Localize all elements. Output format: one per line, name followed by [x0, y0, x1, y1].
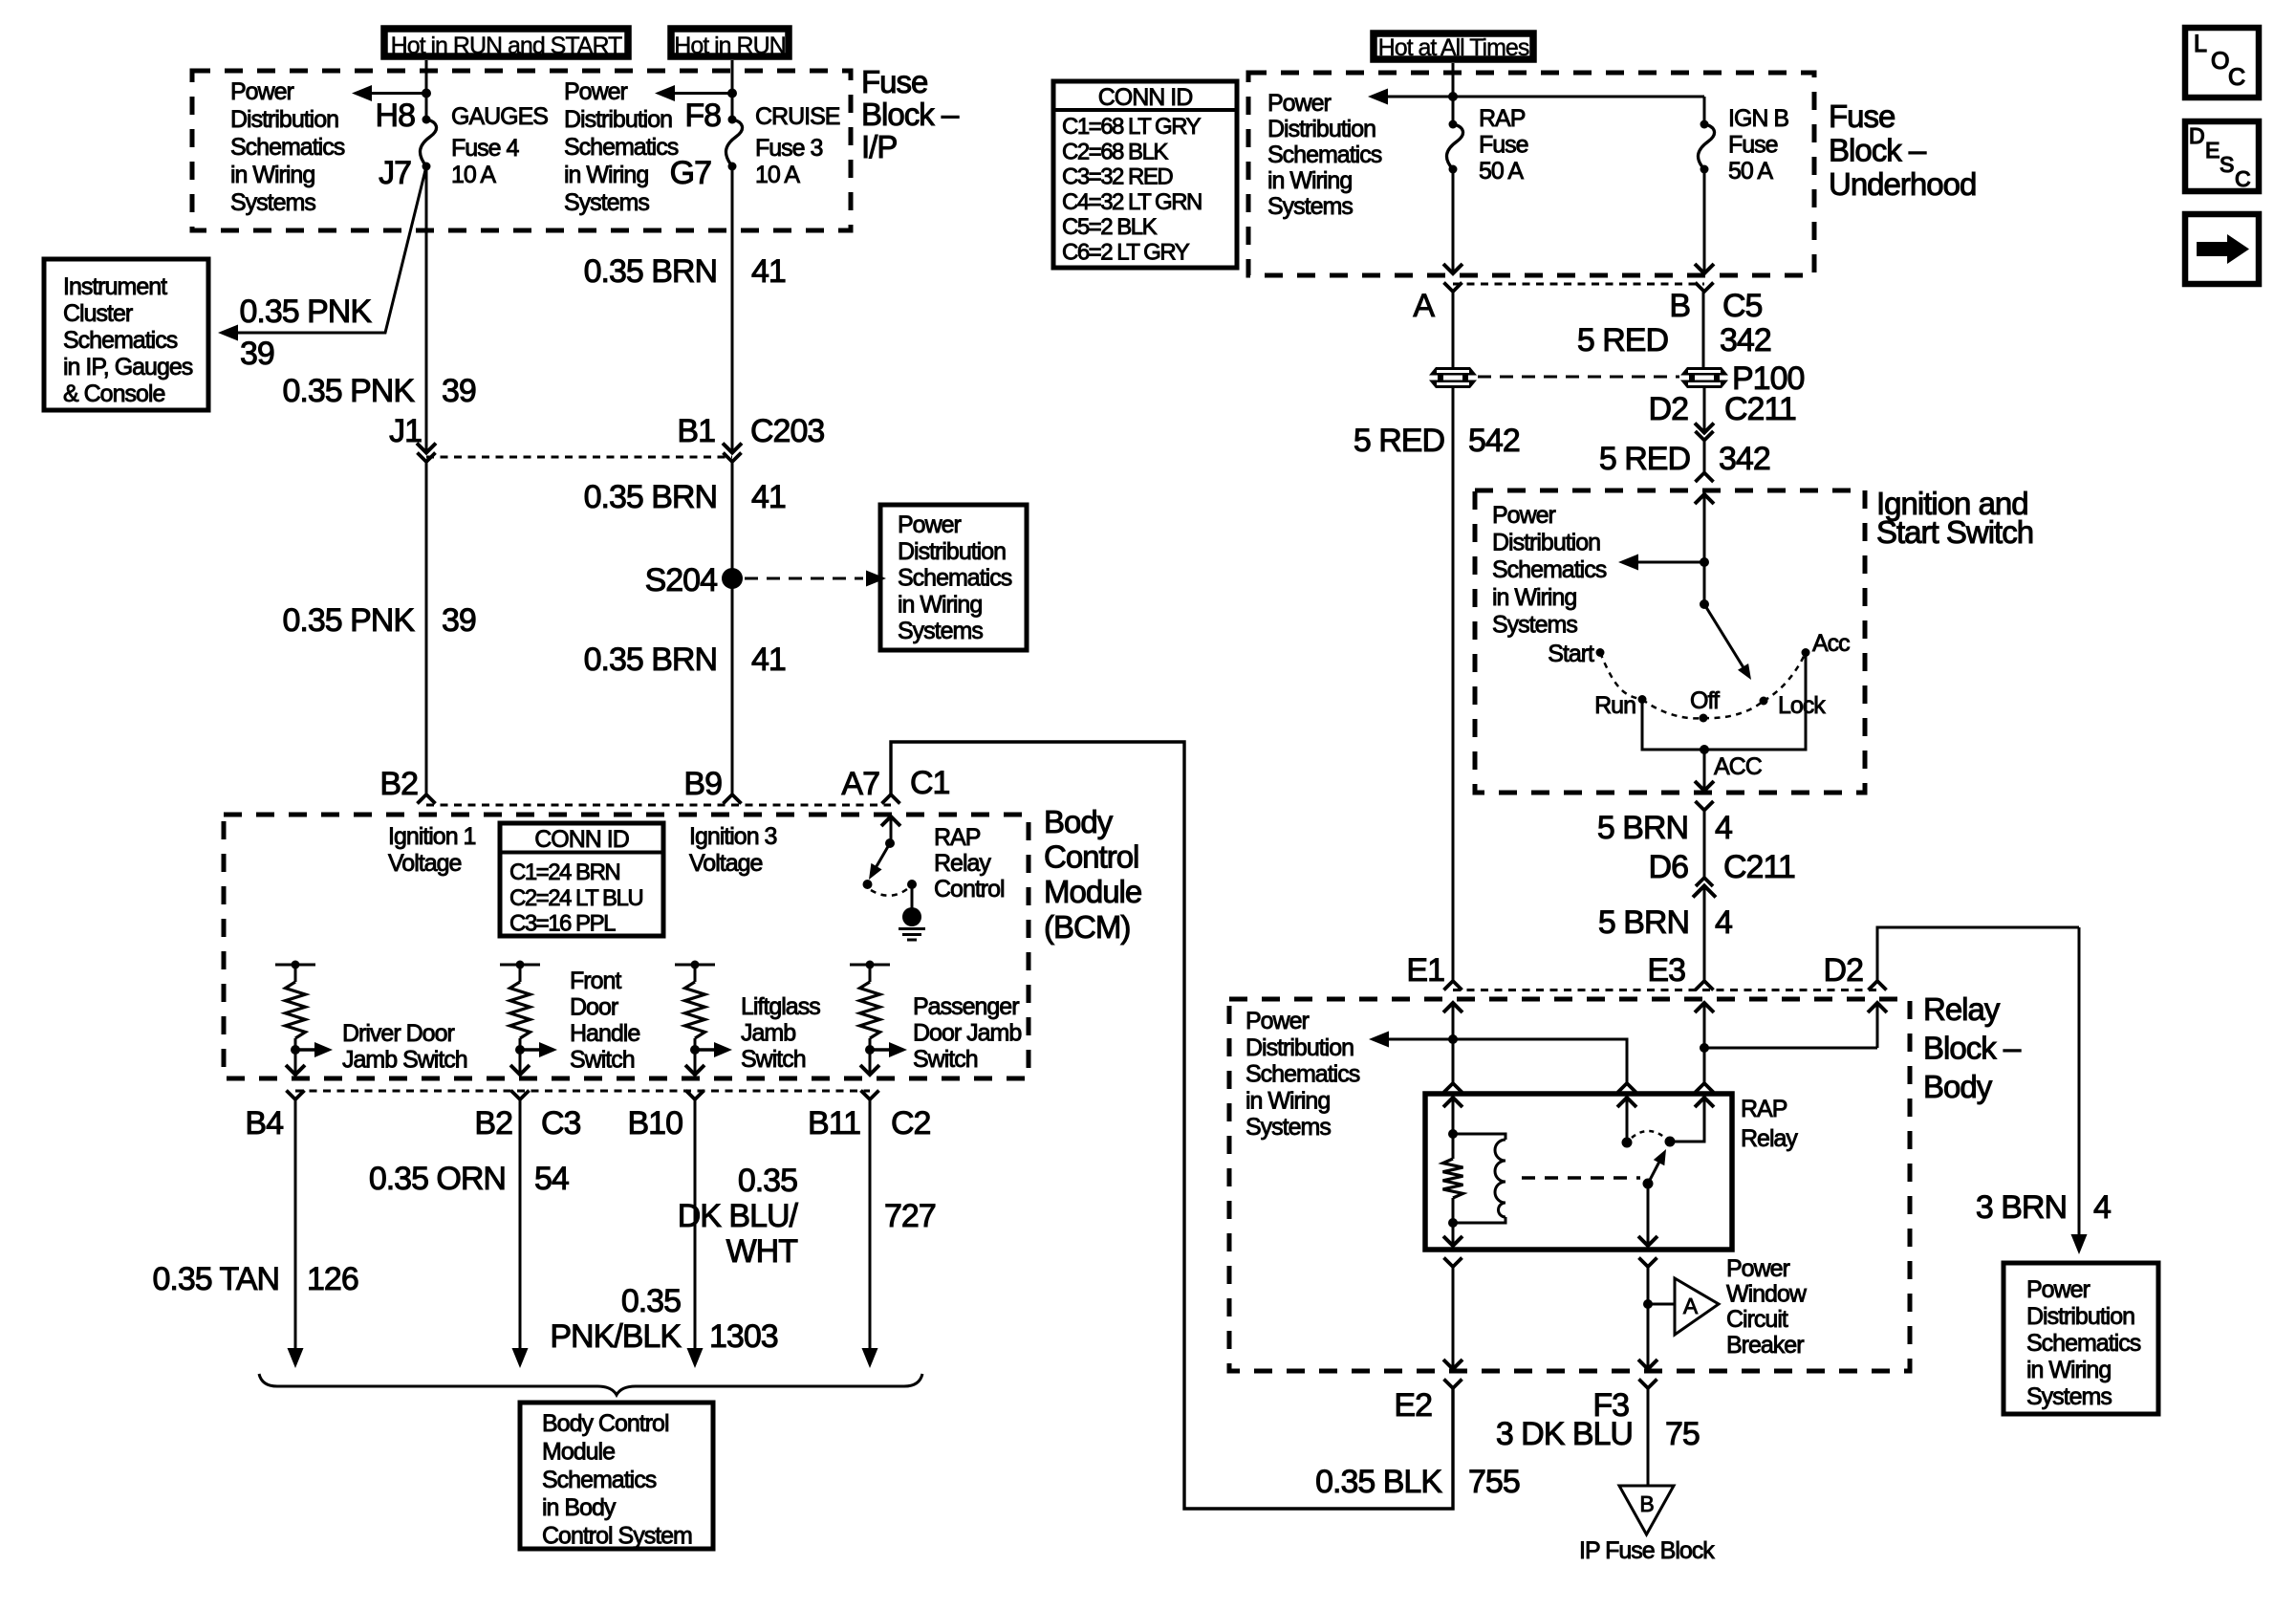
off-page triangle B to IP Fuse Block — [1619, 1486, 1674, 1534]
svg-text:0.35 PNK: 0.35 PNK — [282, 602, 415, 639]
svg-text:Control: Control — [934, 876, 1005, 903]
wire: ACC output down through boundary — [1703, 750, 1706, 791]
svg-text:in Wiring: in Wiring — [1267, 167, 1352, 194]
svg-text:C: C — [2235, 166, 2250, 191]
svg-text:41: 41 — [751, 479, 786, 515]
wire: F3 output inside relay block — [1647, 1267, 1650, 1369]
BCM bottom connector forks and dashed mating line — [287, 1091, 305, 1100]
svg-text:in Wiring: in Wiring — [230, 162, 314, 188]
RAP relay control left contact — [863, 880, 873, 889]
svg-text:Power: Power — [1245, 1008, 1310, 1034]
junction node on GAUGES feed — [422, 89, 431, 98]
svg-text:Door: Door — [570, 994, 618, 1021]
svg-text:0.35 BRN: 0.35 BRN — [584, 479, 717, 515]
svg-text:G7: G7 — [670, 155, 711, 191]
svg-text:RAP: RAP — [1741, 1096, 1787, 1122]
ignition switch feed arrow into boundary — [1695, 494, 1714, 504]
relay block entry arrows E1 E3 D2 — [1443, 1003, 1462, 1012]
svg-text:Relay: Relay — [1923, 991, 2001, 1027]
box: Body Control Module Schematics in Body Control System — [520, 1403, 713, 1549]
wire: arrow to Power Distribution (ignition) — [1624, 561, 1704, 564]
ignition rotary switch armature to Lock — [1704, 604, 1744, 669]
ground symbol — [902, 907, 921, 926]
box: Power Distribution Schematics in Wiring Systems (3 BRN ref) — [2004, 1263, 2158, 1414]
junction: liftglass jamb switch — [690, 1045, 700, 1055]
svg-text:Schematics: Schematics — [63, 327, 178, 354]
fuse: RAP Fuse 50 A — [1449, 120, 1458, 129]
svg-text:C211: C211 — [1724, 391, 1796, 427]
svg-text:IP Fuse Block: IP Fuse Block — [1579, 1537, 1715, 1564]
svg-text:Fuse 4: Fuse 4 — [451, 135, 520, 162]
svg-text:0.35: 0.35 — [738, 1163, 797, 1199]
RAP relay control right contact — [907, 880, 917, 889]
relay input forks above RAP relay — [1444, 1083, 1462, 1093]
svg-text:Run: Run — [1594, 692, 1635, 719]
svg-text:Systems: Systems — [230, 189, 315, 216]
wire: coil return to E2 — [1452, 1223, 1455, 1246]
connector fork A7 into BCM — [882, 794, 900, 804]
connector fork into ignition switch — [1696, 473, 1714, 483]
wire: 0.35 ORN 54 from B2 down — [519, 1099, 522, 1350]
svg-text:in Wiring: in Wiring — [2026, 1357, 2111, 1383]
ignition position contact: Acc — [1802, 648, 1810, 657]
brace grouping BCM output wires — [259, 1374, 922, 1395]
wire: 0.35 TAN 126 from B4 down — [294, 1099, 297, 1350]
svg-text:0.35 BRN: 0.35 BRN — [584, 253, 717, 290]
svg-text:IGN B: IGN B — [1728, 105, 1788, 132]
wire: 0.35 PNK 39 from J7 down to connector J1 — [425, 166, 428, 452]
wire: E3 down to relay — [1703, 1048, 1706, 1083]
svg-text:Front: Front — [570, 968, 621, 994]
svg-text:Switch: Switch — [741, 1046, 806, 1073]
svg-text:B1: B1 — [677, 413, 715, 449]
svg-text:0.35 BRN: 0.35 BRN — [584, 642, 717, 678]
svg-text:H8: H8 — [376, 98, 416, 134]
svg-text:F8: F8 — [684, 98, 721, 134]
dashed grommet link P100 — [1478, 376, 1679, 379]
resistor: Passenger Door Jamb Switch input — [850, 964, 890, 967]
junction: E3/D2 tie — [1700, 1043, 1709, 1053]
svg-text:Power: Power — [564, 78, 628, 105]
RAP relay coil feed arrow — [1443, 1098, 1462, 1107]
svg-text:in IP, Gauges: in IP, Gauges — [63, 354, 193, 381]
svg-text:1303: 1303 — [709, 1318, 778, 1355]
junction: ignition feed split — [1700, 557, 1709, 567]
svg-text:Start Switch: Start Switch — [1876, 514, 2033, 550]
svg-text:Module: Module — [1044, 874, 1141, 909]
svg-text:B2: B2 — [379, 766, 418, 802]
fuse: IGN B Fuse 50 A — [1700, 120, 1709, 129]
resistor: Front Door Handle Switch input — [500, 964, 540, 967]
svg-text:Underhood: Underhood — [1829, 166, 1976, 202]
dashed actuator link — [1522, 1176, 1640, 1179]
connector fork B9 into BCM — [724, 794, 742, 804]
svg-text:Systems: Systems — [898, 618, 983, 644]
svg-text:727: 727 — [884, 1198, 936, 1234]
relay contact: closed (right) — [1665, 1137, 1676, 1147]
RAP relay control dashed throw arc — [871, 889, 907, 896]
svg-text:in Wiring: in Wiring — [898, 591, 982, 618]
svg-text:C4=32 LT GRN: C4=32 LT GRN — [1062, 189, 1202, 215]
svg-text:Systems: Systems — [2026, 1383, 2112, 1410]
resistor: Liftglass Jamb Switch input — [675, 964, 715, 967]
box: Power Distribution Schematics in Wiring Systems (S204 ref) — [880, 505, 1027, 650]
svg-text:D6: D6 — [1649, 849, 1689, 885]
svg-text:0.35: 0.35 — [621, 1283, 681, 1319]
svg-text:3 BRN: 3 BRN — [1976, 1189, 2067, 1226]
wire: E1 branch over to relay switch contact — [1453, 1039, 1627, 1083]
svg-text:CRUISE: CRUISE — [755, 103, 840, 130]
svg-text:Jamb Switch: Jamb Switch — [342, 1047, 467, 1074]
svg-text:& Console: & Console — [63, 381, 164, 407]
svg-text:342: 342 — [1720, 322, 1771, 359]
wire: 3 DK BLU 75 from F3 down to IP Fuse Block — [1647, 1388, 1650, 1486]
relay armature — [1648, 1162, 1659, 1184]
svg-text:Hot in RUN and START: Hot in RUN and START — [391, 33, 622, 59]
svg-text:Schematics: Schematics — [1245, 1061, 1360, 1088]
RAP relay switch arrow (E1 contact) — [1617, 1098, 1636, 1107]
svg-text:Distribution: Distribution — [564, 106, 672, 133]
connector fork below ignition switch — [1696, 801, 1714, 811]
svg-text:Lock: Lock — [1778, 692, 1826, 719]
svg-text:Ignition 3: Ignition 3 — [689, 823, 777, 850]
wire: arrow to Power Distribution (underhood) — [1374, 96, 1453, 98]
RAP relay control switch pivot — [885, 838, 895, 848]
svg-text:E1: E1 — [1406, 952, 1444, 989]
wire: 3 BRN 4 loop from D2 up and right — [1877, 927, 2079, 981]
BCM pin B10 arrow — [685, 1065, 704, 1075]
connector C203 cavity B1 (in-line) — [723, 444, 742, 453]
svg-text:C: C — [2228, 64, 2245, 91]
resistor: Driver Door Jamb Switch input — [275, 964, 315, 967]
wire: 0.35 PNK 39 branch from J7 to Instrument Cluster (diagonal+horizontal) — [224, 166, 426, 333]
grommet P100 on RAP feed — [1428, 367, 1478, 388]
svg-text:Instrument: Instrument — [63, 273, 167, 300]
svg-text:Power: Power — [898, 511, 962, 538]
svg-text:D2: D2 — [1649, 391, 1689, 427]
wire: 0.35 PNK 39 from J1 down to BCM pin B2 — [425, 462, 428, 794]
Body Control Module dashed boundary — [224, 815, 1029, 1078]
svg-text:Fuse: Fuse — [1728, 132, 1778, 159]
svg-text:10 A: 10 A — [755, 162, 800, 188]
svg-text:Distribution: Distribution — [1245, 1034, 1354, 1061]
svg-text:5 RED: 5 RED — [1577, 322, 1668, 359]
junction: front door handle switch — [515, 1045, 525, 1055]
svg-text:C1: C1 — [910, 765, 950, 801]
svg-text:Relay: Relay — [934, 850, 991, 877]
svg-text:Schematics: Schematics — [898, 565, 1012, 592]
svg-text:Cluster: Cluster — [63, 300, 133, 327]
svg-text:41: 41 — [751, 642, 786, 678]
svg-text:Schematics: Schematics — [1492, 556, 1607, 583]
wire: 0.35 BLK 755 from E2 back to BCM A7 — [891, 742, 1453, 1509]
svg-text:GAUGES: GAUGES — [451, 103, 548, 130]
RAP Relay case — [1425, 1094, 1732, 1250]
svg-text:Passenger: Passenger — [913, 993, 1019, 1020]
svg-text:126: 126 — [307, 1261, 358, 1297]
svg-text:C2=68 BLK: C2=68 BLK — [1062, 139, 1168, 164]
splice S204 — [722, 568, 743, 589]
wire: arrow to Power Distribution (relay block) — [1375, 1038, 1453, 1041]
svg-text:Handle: Handle — [570, 1020, 639, 1047]
relay contact dotted arc — [1632, 1131, 1665, 1138]
Fuse Block - Underhood dashed boundary — [1248, 73, 1814, 275]
svg-text:C5: C5 — [1722, 288, 1763, 324]
svg-text:DK BLU/: DK BLU/ — [678, 1198, 799, 1234]
svg-text:in Wiring: in Wiring — [1492, 584, 1576, 611]
junction: ACC output — [1700, 745, 1709, 754]
wire: IGN B fuse output to underhood boundary — [1703, 169, 1706, 273]
svg-text:Off: Off — [1690, 687, 1720, 714]
wire: from Hot in RUN down to CRUISE fuse — [731, 60, 734, 120]
svg-text:Control: Control — [1044, 839, 1138, 875]
svg-text:Systems: Systems — [1492, 611, 1577, 638]
wire to Power Window Circuit Breaker — [1648, 1303, 1675, 1306]
svg-text:C1=68 LT GRY: C1=68 LT GRY — [1062, 114, 1202, 140]
svg-text:755: 755 — [1468, 1464, 1520, 1500]
svg-text:39: 39 — [442, 602, 476, 639]
svg-text:D: D — [2189, 123, 2204, 148]
power feed box: Hot in RUN and START — [384, 29, 628, 56]
svg-text:Schematics: Schematics — [1267, 141, 1382, 168]
box: Instrument Cluster Schematics in IP, Gauges & Console — [44, 259, 208, 410]
connector forks E1 E3 D2 at relay block — [1444, 981, 1462, 990]
power feed box: Hot at All Times — [1374, 33, 1533, 59]
wire: from Hot in RUN and START down to GAUGES fuse — [425, 60, 428, 120]
svg-text:542: 542 — [1468, 423, 1520, 459]
wire: 5 RED 342 from B/C5 down to P100 — [1702, 292, 1705, 369]
wire: arrow to Power Distribution (left) — [357, 92, 426, 95]
svg-text:Power: Power — [230, 78, 294, 105]
CONN ID table (Underhood) — [1053, 81, 1237, 268]
Power Window Circuit Breaker (triangle A) — [1675, 1278, 1719, 1335]
relay output forks below case — [1444, 1258, 1462, 1268]
svg-text:E3: E3 — [1647, 952, 1685, 989]
svg-text:50 A: 50 A — [1479, 158, 1524, 185]
wire: 0.35 PNK/BLK 1303 from B10 down — [694, 1099, 697, 1350]
svg-text:342: 342 — [1719, 441, 1770, 477]
svg-text:WHT: WHT — [726, 1233, 798, 1270]
junction: E1 branch — [1448, 1034, 1458, 1044]
grommet P100 on IGN B feed — [1679, 367, 1729, 388]
svg-text:Distribution: Distribution — [2026, 1303, 2134, 1330]
svg-text:ACC: ACC — [1714, 753, 1763, 780]
wire: 5 BRN 4 to C211 D6 — [1703, 811, 1706, 879]
svg-text:10 A: 10 A — [451, 162, 496, 188]
svg-text:Fuse: Fuse — [1829, 98, 1895, 134]
svg-text:75: 75 — [1665, 1416, 1700, 1452]
ignition position contact: Start — [1596, 648, 1605, 657]
RAP relay control switch armature — [873, 843, 890, 873]
connector fork B2 into BCM — [418, 794, 436, 804]
BCM header dashed mating line — [426, 804, 891, 807]
Fuse Block - I/P dashed boundary — [192, 71, 851, 230]
svg-text:Liftglass: Liftglass — [741, 993, 820, 1020]
power feed box: Hot in RUN — [671, 29, 789, 56]
svg-text:4: 4 — [2093, 1189, 2111, 1226]
junction: battery feed split — [1448, 92, 1458, 101]
relay contact: common feed from E3 — [1695, 1098, 1714, 1107]
wire: branch to IGN B fuse — [1453, 96, 1704, 98]
svg-text:Schematics: Schematics — [2026, 1330, 2141, 1357]
svg-text:Schematics: Schematics — [230, 134, 345, 161]
svg-text:Distribution: Distribution — [1492, 530, 1600, 556]
wire: 3 BRN 4 down to Power Distribution box — [2078, 927, 2081, 1236]
svg-text:39: 39 — [240, 336, 274, 372]
CONN ID table (BCM) — [500, 823, 663, 936]
wire: 0.35 DK BLU/WHT 727 from B11 down — [869, 1099, 872, 1350]
svg-text:B11: B11 — [808, 1105, 860, 1142]
svg-text:39: 39 — [442, 373, 476, 409]
svg-text:in Wiring: in Wiring — [1245, 1087, 1330, 1114]
svg-text:in Wiring: in Wiring — [564, 162, 648, 188]
svg-text:Voltage: Voltage — [388, 850, 462, 877]
relay common pivot — [1643, 1179, 1654, 1189]
svg-text:D2: D2 — [1824, 952, 1864, 989]
wire: Hot at All Times feed down — [1452, 63, 1455, 124]
svg-text:Block –: Block – — [1923, 1030, 2022, 1065]
ignition position contact: Lock — [1760, 697, 1768, 706]
arrow to Liftglass Jamb Switch — [695, 1048, 715, 1051]
svg-text:Hot at All Times: Hot at All Times — [1378, 34, 1529, 61]
icon: DESC — [2185, 121, 2259, 191]
connector C203 dashed mating line — [426, 456, 732, 459]
svg-text:5 BRN: 5 BRN — [1597, 810, 1688, 846]
Ignition and Start Switch dashed boundary — [1475, 490, 1865, 793]
svg-text:Distribution: Distribution — [1267, 116, 1375, 142]
svg-text:C6=2 LT GRY: C6=2 LT GRY — [1062, 240, 1190, 266]
svg-text:Acc: Acc — [1812, 630, 1850, 657]
svg-text:Fuse 3: Fuse 3 — [755, 135, 823, 162]
svg-text:Door Jamb: Door Jamb — [913, 1020, 1021, 1047]
svg-text:B2: B2 — [474, 1105, 512, 1142]
dashed reference arrow from S204 — [745, 577, 863, 580]
relay contact: normally open (left) — [1622, 1138, 1633, 1148]
ignition rotary switch pivot — [1700, 599, 1709, 609]
svg-text:A: A — [1683, 1294, 1699, 1318]
svg-text:Schematics: Schematics — [564, 134, 679, 161]
svg-text:Breaker: Breaker — [1726, 1332, 1804, 1359]
wire: 5 RED 342 down to ignition switch — [1703, 441, 1706, 473]
svg-text:C5=2 BLK: C5=2 BLK — [1062, 214, 1158, 240]
svg-text:(BCM): (BCM) — [1044, 909, 1130, 945]
connector C211 cavity D6 (in-line) — [1696, 878, 1713, 886]
arrow to Passenger Door Jamb Switch — [870, 1048, 890, 1051]
svg-text:Control System: Control System — [542, 1523, 692, 1550]
svg-text:in Body: in Body — [542, 1494, 617, 1521]
junction: circuit breaker tap — [1643, 1299, 1653, 1309]
ignition position contact: Off — [1700, 714, 1708, 723]
wire: 5 RED 542 from A down to E1 — [1452, 292, 1455, 981]
RAP relay coil — [1453, 1134, 1505, 1140]
arrow to Driver Door Jamb Switch — [295, 1048, 315, 1051]
arrow to Front Door Handle Switch — [520, 1048, 540, 1051]
BCM pin B4 arrow — [286, 1065, 305, 1075]
svg-text:5 RED: 5 RED — [1599, 441, 1690, 477]
ignition dashed detent arc — [1600, 653, 1642, 700]
svg-text:Ignition 1: Ignition 1 — [388, 823, 476, 850]
svg-text:B: B — [1669, 288, 1690, 324]
svg-text:Power: Power — [1267, 90, 1332, 117]
svg-text:S: S — [2220, 152, 2234, 177]
svg-text:J7: J7 — [379, 155, 411, 191]
svg-text:C3=16 PPL: C3=16 PPL — [509, 911, 616, 937]
svg-text:Module: Module — [542, 1438, 615, 1465]
svg-text:C3: C3 — [541, 1105, 581, 1142]
svg-text:B4: B4 — [245, 1105, 283, 1142]
wire: 5 BRN 4 down to relay block E3 — [1703, 886, 1706, 981]
RAP Relay Control switch inside BCM: arrow up to A7 — [881, 816, 900, 826]
svg-text:Block –: Block – — [1829, 133, 1927, 168]
svg-text:0.35 BLK: 0.35 BLK — [1315, 1464, 1442, 1500]
svg-text:C1=24 BRN: C1=24 BRN — [509, 859, 619, 885]
svg-text:Block –: Block – — [861, 97, 960, 132]
svg-text:Window: Window — [1726, 1281, 1808, 1308]
icon: next-page arrow — [2185, 214, 2259, 284]
svg-text:Power: Power — [2026, 1276, 2090, 1303]
svg-text:A: A — [1413, 288, 1435, 324]
svg-text:Power: Power — [1492, 502, 1556, 529]
svg-text:Switch: Switch — [570, 1047, 635, 1074]
svg-text:PNK/BLK: PNK/BLK — [550, 1318, 682, 1355]
wire: IGN B feed to C211 D2 — [1703, 386, 1706, 432]
wire: arrow to Power Distribution (middle) — [661, 92, 732, 95]
svg-text:3 DK BLU: 3 DK BLU — [1496, 1416, 1633, 1452]
svg-text:Body: Body — [1044, 804, 1114, 839]
junction node on CRUISE feed — [727, 89, 737, 98]
svg-text:5 RED: 5 RED — [1354, 423, 1444, 459]
svg-text:Circuit: Circuit — [1726, 1306, 1788, 1333]
svg-text:Fuse: Fuse — [1479, 132, 1528, 159]
svg-text:B10: B10 — [628, 1105, 683, 1142]
svg-text:C203: C203 — [750, 413, 824, 449]
ground wire — [911, 884, 914, 911]
svg-text:C211: C211 — [1723, 849, 1795, 885]
svg-text:S204: S204 — [645, 562, 717, 598]
svg-text:0.35 PNK: 0.35 PNK — [239, 294, 372, 330]
svg-text:Fuse: Fuse — [861, 64, 927, 99]
svg-text:I/P: I/P — [861, 129, 897, 164]
svg-text:0.35 PNK: 0.35 PNK — [282, 373, 415, 409]
wire: RAP fuse output to underhood boundary — [1452, 169, 1455, 273]
svg-text:Start: Start — [1548, 641, 1594, 667]
svg-text:Schematics: Schematics — [542, 1467, 657, 1493]
wire: relay output down — [1647, 1184, 1650, 1246]
fuse: CRUISE Fuse 3 10 A — [728, 116, 737, 124]
svg-text:50 A: 50 A — [1728, 158, 1773, 185]
svg-text:B9: B9 — [683, 766, 722, 802]
RAP relay internal resistor — [1443, 1159, 1463, 1198]
relay block exit forks E2 F3 — [1444, 1380, 1462, 1389]
svg-text:Switch: Switch — [913, 1046, 978, 1073]
svg-text:Driver Door: Driver Door — [342, 1020, 454, 1047]
svg-text:CONN ID: CONN ID — [1098, 84, 1193, 111]
svg-text:Distribution: Distribution — [230, 106, 338, 133]
svg-text:O: O — [2211, 48, 2229, 75]
connector C211 cavity D2 (in-line) — [1695, 424, 1714, 433]
wire: Run contact to ACC junction — [1642, 653, 1806, 751]
wire: D2 to E3 tie — [1704, 1047, 1877, 1050]
BCM pin B11 arrow — [860, 1065, 879, 1075]
Relay Block - Body dashed boundary — [1229, 999, 1910, 1371]
fuse: GAUGES Fuse 4 10 A — [422, 116, 431, 124]
connector forks A and B below underhood block — [1444, 283, 1462, 293]
svg-text:C2=24 LT BLU: C2=24 LT BLU — [509, 885, 642, 911]
svg-text:4: 4 — [1715, 810, 1732, 846]
wire: E2 return inside relay block — [1452, 1267, 1455, 1369]
svg-text:Distribution: Distribution — [898, 538, 1006, 565]
svg-text:Hot in RUN: Hot in RUN — [674, 33, 785, 59]
